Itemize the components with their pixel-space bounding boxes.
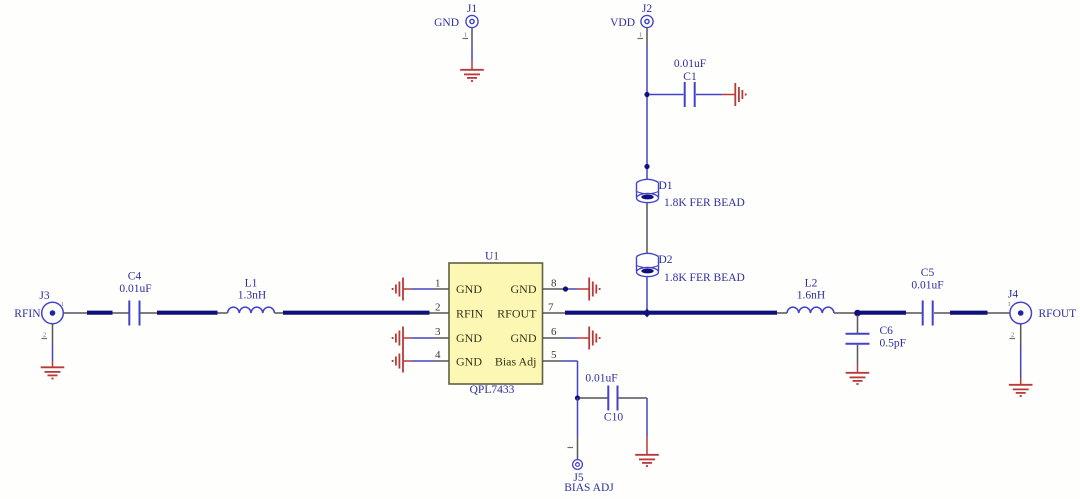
svg-text:D2: D2 xyxy=(659,254,673,266)
svg-text:1: 1 xyxy=(464,32,467,39)
svg-text:GND: GND xyxy=(456,331,482,345)
connector J4 xyxy=(1008,289,1032,324)
svg-text:C1: C1 xyxy=(683,71,697,83)
wire to C5 xyxy=(906,312,922,314)
wire J4 to ground xyxy=(1010,324,1021,385)
svg-text:GND: GND xyxy=(434,17,459,29)
capacitor C5 xyxy=(911,267,943,326)
wire J3 to trace xyxy=(64,312,88,314)
wire to J4 xyxy=(988,312,1010,314)
ground right of pin 8 xyxy=(589,278,599,301)
capacitor C1 xyxy=(674,58,706,107)
wire C5 to trace xyxy=(934,312,950,314)
svg-text:VDD: VDD xyxy=(610,17,635,29)
svg-text:3: 3 xyxy=(435,326,441,338)
svg-text:6: 6 xyxy=(551,326,557,338)
wire pin 8 xyxy=(543,288,590,290)
wire L1 to trace xyxy=(275,312,285,314)
ground left of pin 1 xyxy=(393,278,403,301)
inductor L1 xyxy=(228,278,275,314)
ground below J1 xyxy=(460,70,484,81)
svg-text:RFIN: RFIN xyxy=(456,307,484,321)
node C6 junction xyxy=(854,310,861,317)
svg-text:GND: GND xyxy=(511,331,537,345)
connector J5 xyxy=(564,460,614,494)
wire pin 1 xyxy=(403,288,449,290)
node bias junction xyxy=(575,395,580,400)
node VDD/C1 junction xyxy=(644,92,649,97)
svg-text:1.3nH: 1.3nH xyxy=(238,290,266,302)
capacitor C6 xyxy=(846,325,907,350)
svg-text:J2: J2 xyxy=(642,3,652,15)
svg-text:0.01uF: 0.01uF xyxy=(585,373,617,385)
svg-text:C5: C5 xyxy=(921,267,935,279)
pin numbers U1 xyxy=(435,278,557,362)
node RF line / D2 junction xyxy=(643,309,651,318)
svg-text:RFOUT: RFOUT xyxy=(497,307,537,321)
wire junction to C10 xyxy=(580,397,608,399)
svg-text:C6: C6 xyxy=(880,325,894,337)
wire junction to C1 xyxy=(649,94,684,96)
wire between D1 and D2 xyxy=(646,203,648,253)
svg-text:2: 2 xyxy=(43,332,46,339)
wire to pin 2 xyxy=(430,312,450,314)
ground right of pin 6 xyxy=(589,327,599,350)
ground below C10 xyxy=(635,455,659,466)
ferrite bead D2 xyxy=(637,253,745,284)
trace segment 1 xyxy=(87,311,113,315)
ground below J3 xyxy=(41,367,65,378)
wire J2 down to D1 xyxy=(638,28,648,180)
wire pin 4 xyxy=(403,360,449,362)
svg-text:5: 5 xyxy=(551,349,557,361)
svg-text:2: 2 xyxy=(1011,332,1014,339)
wire pin 6 xyxy=(543,337,590,339)
wire C4 to trace xyxy=(141,312,158,314)
connector J1 xyxy=(434,3,478,29)
wire to C4 xyxy=(113,312,129,314)
capacitor C4 xyxy=(119,271,151,326)
svg-text:1: 1 xyxy=(435,278,441,290)
op-amp U1 QPL7433 body xyxy=(449,251,543,397)
ground left of pin 4 xyxy=(393,350,403,373)
svg-text:QPL7433: QPL7433 xyxy=(470,384,515,396)
connector J3 xyxy=(39,290,64,324)
wire J1 to ground xyxy=(463,28,473,70)
svg-text:0.01uF: 0.01uF xyxy=(911,280,943,292)
svg-text:1.8K FER BEAD: 1.8K FER BEAD xyxy=(664,272,745,284)
svg-text:7: 7 xyxy=(548,302,554,314)
pin labels U1 xyxy=(456,282,537,369)
node pin 8 xyxy=(563,286,568,291)
svg-text:J4: J4 xyxy=(1008,289,1018,301)
wire junction to J5 xyxy=(568,398,578,460)
trace segment 4 xyxy=(565,311,777,315)
wire C1 to ground xyxy=(696,94,735,96)
trace segment 3 xyxy=(283,311,430,315)
svg-text:2: 2 xyxy=(435,302,441,314)
svg-text:L1: L1 xyxy=(245,278,258,290)
ground below C6 xyxy=(846,373,870,384)
svg-text:1.6nH: 1.6nH xyxy=(797,290,825,302)
capacitor C10 xyxy=(585,373,623,424)
trace segment 6 xyxy=(950,311,988,315)
svg-text:4: 4 xyxy=(435,349,441,361)
wire C6 to ground xyxy=(857,345,859,373)
wire pin 3 xyxy=(403,337,449,339)
wire node to C6 xyxy=(857,315,859,333)
svg-text:GND: GND xyxy=(456,282,482,296)
ground right of C1 xyxy=(735,83,745,106)
svg-text:L2: L2 xyxy=(805,278,818,290)
wire pin 7 to trace xyxy=(543,312,567,314)
svg-text:U1: U1 xyxy=(485,251,499,263)
svg-text:D1: D1 xyxy=(659,180,673,192)
wire D2 to RF line xyxy=(646,277,648,311)
connector J2 xyxy=(610,3,653,29)
svg-text:C4: C4 xyxy=(128,271,142,283)
svg-text:8: 8 xyxy=(551,278,557,290)
trace segment 2 xyxy=(157,311,218,315)
svg-text:C10: C10 xyxy=(604,412,623,424)
ground left of pin 3 xyxy=(393,327,403,350)
trace segment 5 xyxy=(858,311,907,315)
svg-text:BIAS ADJ: BIAS ADJ xyxy=(564,482,614,494)
inductor L2 xyxy=(787,278,834,314)
wire L2 to node xyxy=(834,312,856,314)
node above D1 xyxy=(644,164,649,169)
wire to L1 xyxy=(218,312,228,314)
svg-text:1: 1 xyxy=(639,32,642,39)
svg-text:RFIN: RFIN xyxy=(14,308,41,320)
svg-text:GND: GND xyxy=(456,355,482,369)
svg-text:Bias Adj: Bias Adj xyxy=(495,355,537,369)
svg-text:0.01uF: 0.01uF xyxy=(119,283,151,295)
ground below J4 xyxy=(1009,385,1033,396)
wire pin 5 xyxy=(543,361,578,398)
wire C10 to ground xyxy=(619,398,648,455)
svg-text:J3: J3 xyxy=(39,290,49,302)
svg-text:1: 1 xyxy=(61,301,64,308)
svg-text:1: 1 xyxy=(1008,301,1011,308)
ferrite bead D1 xyxy=(637,179,745,209)
wire to L2 xyxy=(777,312,787,314)
svg-text:0.5pF: 0.5pF xyxy=(880,338,907,350)
svg-text:J1: J1 xyxy=(467,3,477,15)
svg-text:0.01uF: 0.01uF xyxy=(674,58,706,70)
svg-text:GND: GND xyxy=(511,282,537,296)
wire J3 to ground xyxy=(42,324,53,367)
svg-text:1.8K FER BEAD: 1.8K FER BEAD xyxy=(664,197,745,209)
svg-text:RFOUT: RFOUT xyxy=(1039,308,1077,320)
